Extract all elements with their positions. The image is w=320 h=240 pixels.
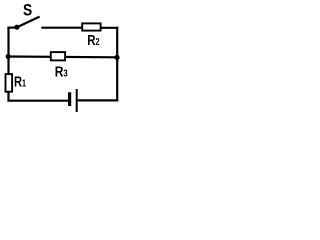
wire right vertical bbox=[116, 27, 118, 102]
resistor R1 bbox=[6, 74, 13, 92]
wire bottom-right segment bbox=[78, 99, 119, 101]
label R3 bbox=[55, 63, 68, 80]
battery bbox=[68, 89, 77, 112]
resistor R2 bbox=[82, 23, 100, 30]
svg-text:R1: R1 bbox=[14, 73, 26, 90]
node left junction bbox=[6, 54, 11, 59]
switch S bbox=[14, 17, 39, 30]
svg-text:R3: R3 bbox=[55, 63, 68, 80]
resistor R3 bbox=[51, 52, 65, 60]
wire top-right segment bbox=[101, 27, 119, 29]
svg-text:R2: R2 bbox=[87, 31, 99, 48]
wire top middle segment bbox=[41, 27, 82, 29]
wire left vertical bbox=[7, 27, 9, 102]
node right junction bbox=[114, 55, 119, 60]
wire bottom-left segment bbox=[7, 100, 68, 102]
label S bbox=[23, 1, 32, 19]
label R2 bbox=[87, 31, 99, 48]
wire top-left segment bbox=[7, 27, 17, 29]
wire middle horizontal bbox=[8, 55, 117, 58]
label R1 bbox=[14, 73, 26, 90]
svg-text:S: S bbox=[23, 1, 32, 19]
